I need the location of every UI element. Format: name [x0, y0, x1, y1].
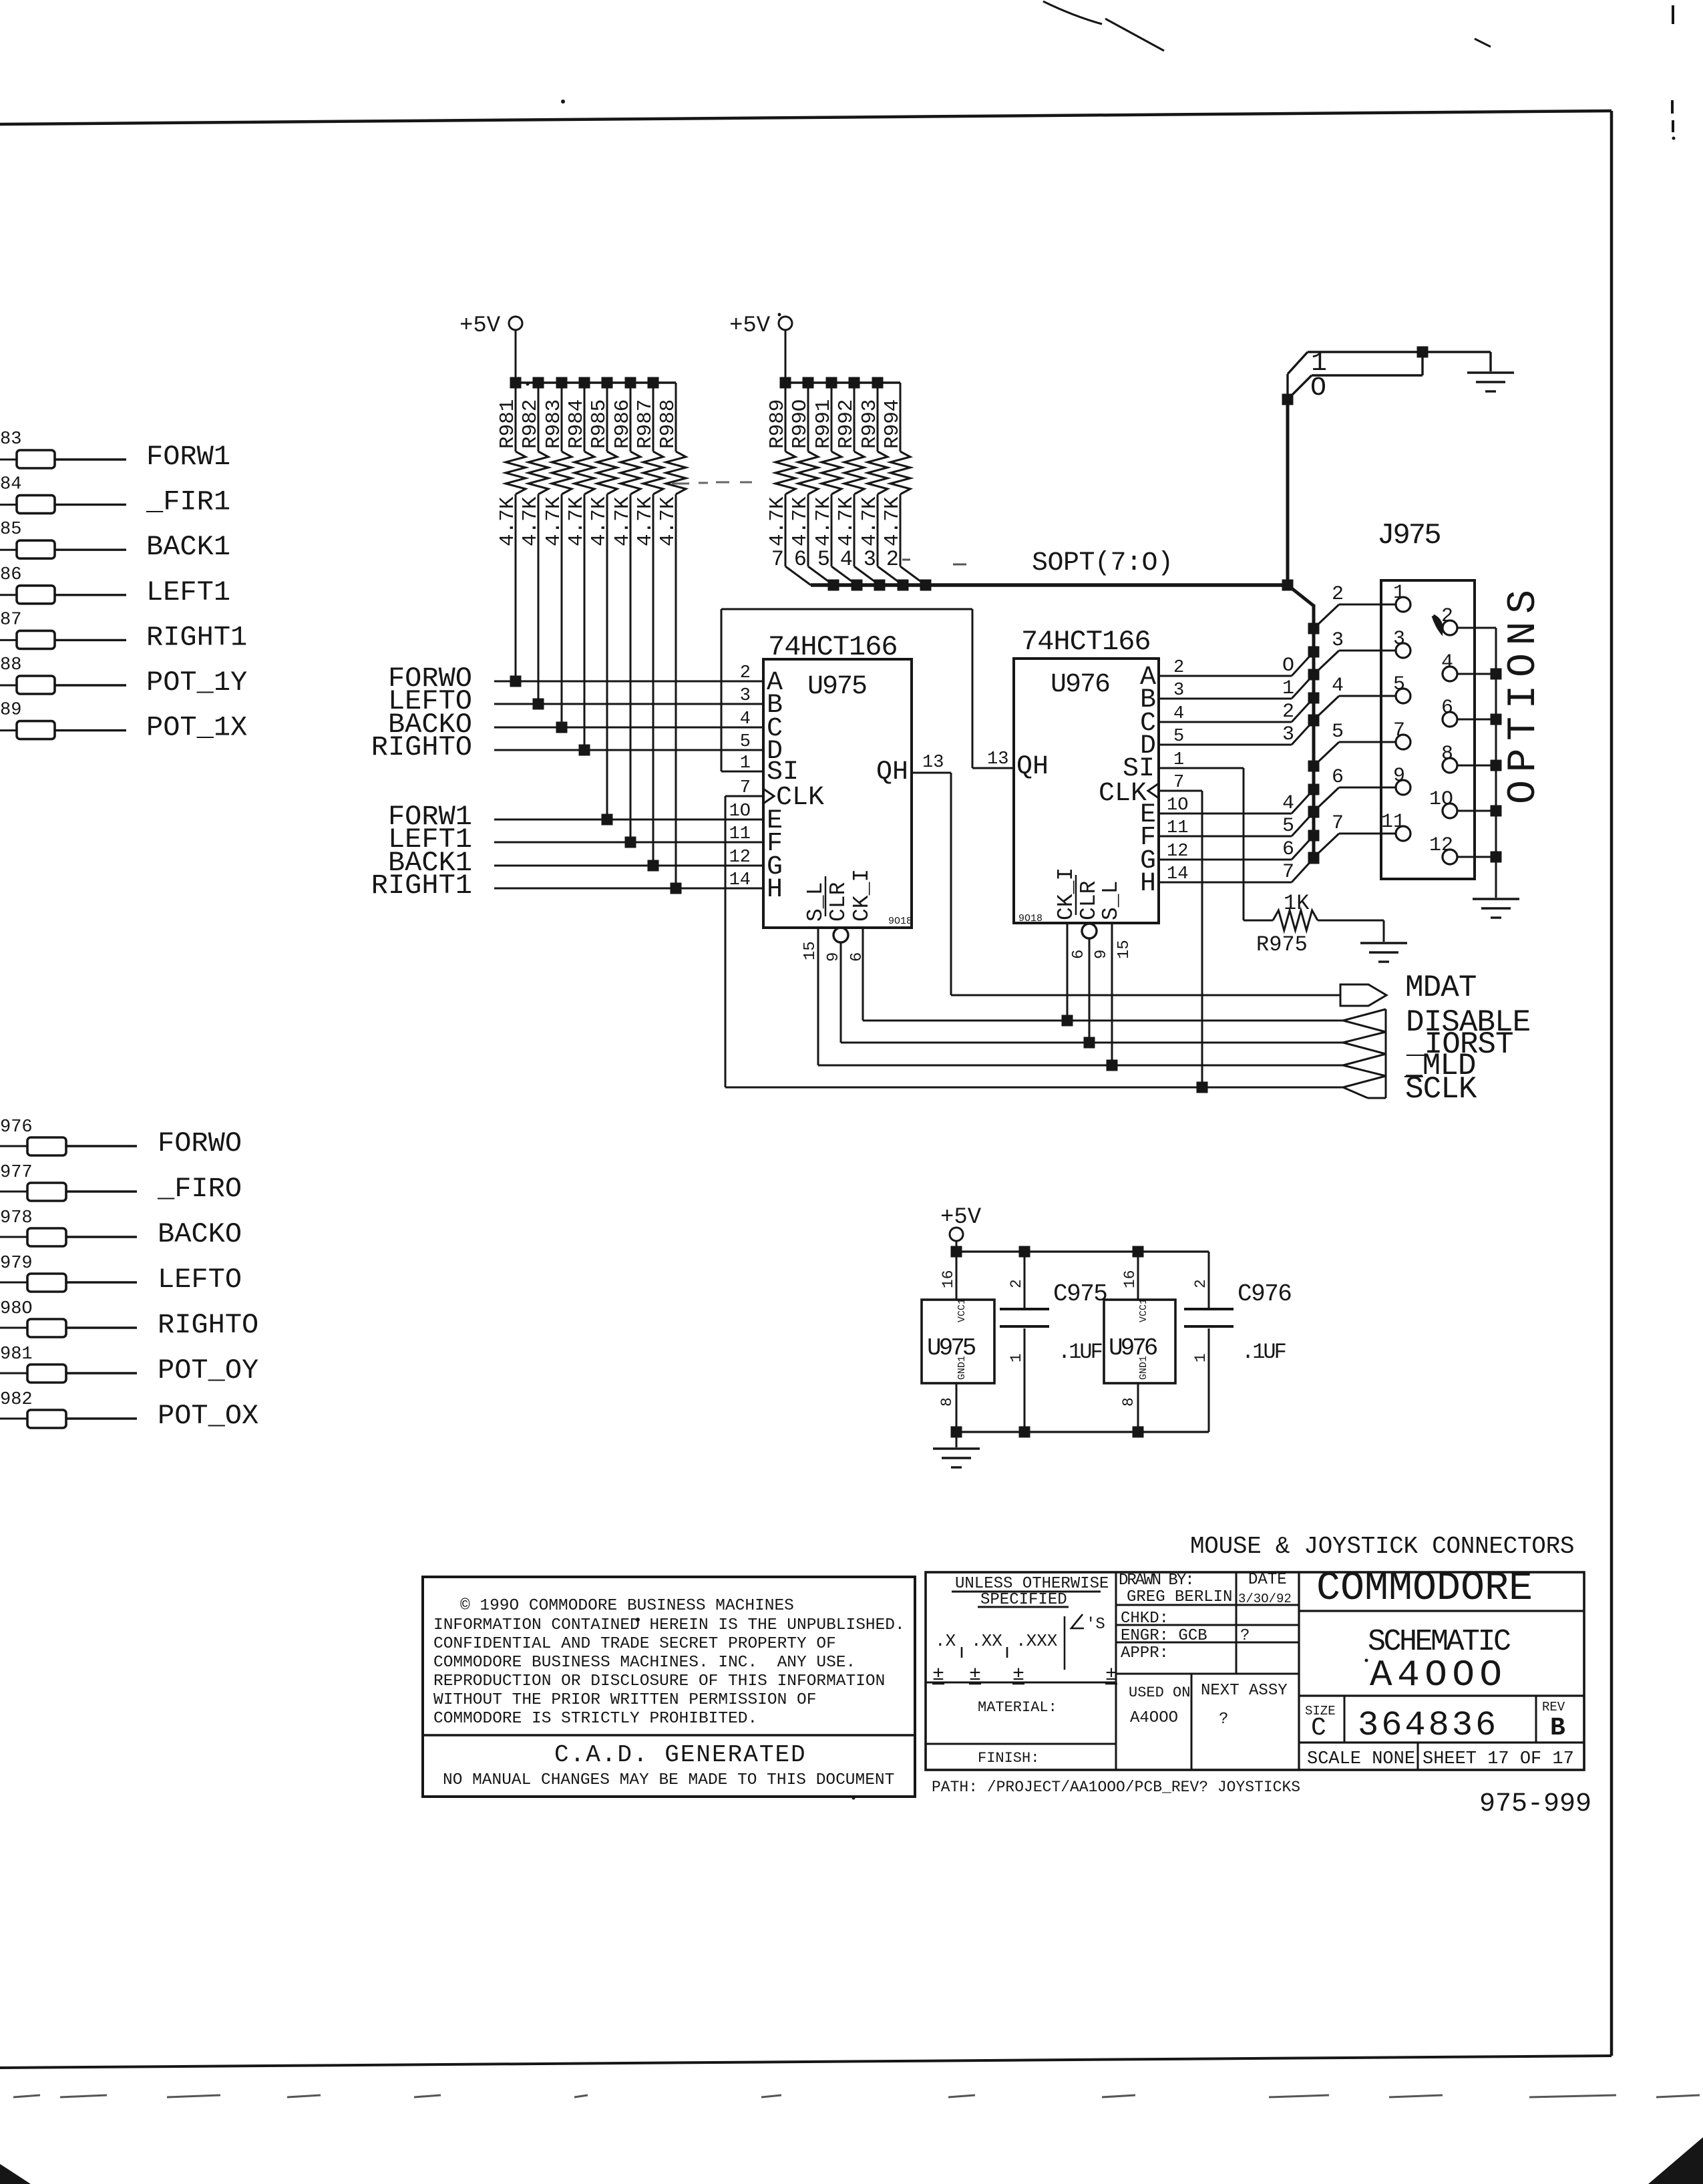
resistor R988 4.7K [666, 451, 686, 494]
svg-text:_FIRO: _FIRO [157, 1173, 242, 1205]
svg-text:CLR: CLR [1077, 881, 1101, 920]
resistor R982 4.7K [538, 383, 540, 451]
svg-text:8: 8 [1441, 743, 1453, 765]
node bus junction [920, 580, 932, 591]
svg-text:© 199O COMMODORE BUSINESS MACH: © 199O COMMODORE BUSINESS MACHINES [460, 1597, 794, 1615]
svg-text:2: 2 [1192, 1279, 1209, 1288]
svg-text:O: O [1282, 655, 1294, 677]
ground (strap) [1467, 371, 1514, 373]
svg-text:86: 86 [0, 565, 21, 585]
svg-text:REV: REV [1542, 1700, 1565, 1714]
node junction [1491, 805, 1502, 817]
flag SCLK (input) [1343, 1076, 1386, 1098]
resistor R986 (LEFT1) [0, 594, 17, 596]
svg-text:MDAT: MDAT [1405, 970, 1476, 1005]
svg-text:13: 13 [987, 749, 1008, 769]
flag _MLD (input) [1343, 1054, 1386, 1076]
node bus junction [898, 580, 909, 591]
svg-text:COMMODORE: COMMODORE [1316, 1566, 1533, 1612]
shift register U976 74HCT166 [1014, 659, 1159, 923]
wire bus entry [785, 566, 811, 585]
pin 11 J975 [1396, 826, 1410, 841]
bus diagonal to vertical [1288, 585, 1314, 606]
svg-text:C975: C975 [1053, 1280, 1107, 1308]
resistor R990 4.7K [807, 383, 809, 451]
svg-text:USED ON: USED ON [1129, 1684, 1190, 1701]
svg-text:7: 7 [1332, 812, 1344, 835]
power box U976 [1104, 1300, 1175, 1383]
svg-text:LEFT1: LEFT1 [146, 576, 230, 608]
svg-text:15: 15 [801, 941, 819, 960]
svg-text:8: 8 [1120, 1397, 1137, 1407]
svg-text:U975: U975 [807, 672, 866, 702]
svg-text:9O18: 9O18 [888, 916, 912, 927]
svg-text:CLK: CLK [776, 783, 824, 813]
svg-text:16: 16 [1121, 1270, 1139, 1288]
svg-text:QH: QH [876, 757, 908, 787]
node bus tap [1308, 761, 1320, 772]
svg-text:976: 976 [0, 1117, 33, 1137]
resistor R988 (POT_1Y) [0, 685, 17, 687]
svg-text:88: 88 [0, 655, 21, 675]
svg-text:H: H [767, 875, 783, 905]
node bus tap [1308, 852, 1320, 864]
node bus tap [1308, 693, 1320, 704]
svg-text:SHEET 17 OF 17: SHEET 17 OF 17 [1423, 1749, 1574, 1769]
resistor R983 4.7K [561, 383, 563, 451]
svg-text:.1UF: .1UF [1058, 1340, 1102, 1364]
wire FORWO to U975 [494, 681, 763, 683]
svg-text:4: 4 [1282, 792, 1294, 815]
wire U976 CLK to SCLK [1159, 790, 1202, 792]
svg-text:1O: 1O [1429, 788, 1453, 811]
flag DISABLE (input) [1343, 1009, 1386, 1032]
svg-text:R989: R989 [766, 399, 789, 449]
resistor R977 (_FIRO) [0, 1191, 27, 1193]
bus SOPT(7:0) horizontal [811, 583, 1288, 587]
scan artifacts [1043, 1, 1102, 24]
svg-text:?: ? [1219, 1710, 1228, 1728]
svg-text:GND1: GND1 [956, 1356, 968, 1380]
svg-text:12: 12 [1429, 834, 1453, 857]
node rail junction [803, 377, 814, 389]
svg-text:5: 5 [1332, 721, 1344, 743]
resistor R993 4.7K [877, 383, 879, 451]
ground (J975) [1473, 898, 1519, 900]
svg-text:NO MANUAL CHANGES MAY BE MADE: NO MANUAL CHANGES MAY BE MADE TO THIS DO… [443, 1771, 894, 1789]
connector J975 [1381, 580, 1475, 879]
node junction [510, 676, 522, 687]
svg-text:1: 1 [1008, 1353, 1025, 1362]
wire strap to ground [1423, 351, 1491, 353]
svg-text:R981: R981 [496, 399, 520, 449]
svg-text:3: 3 [1332, 629, 1344, 652]
svg-text:MATERIAL:: MATERIAL: [978, 1699, 1057, 1716]
node rail junction [510, 377, 522, 389]
pin 7 J975 [1396, 735, 1410, 749]
pin 5 J975 [1396, 689, 1410, 703]
svg-text:977: 977 [0, 1163, 33, 1183]
resistor R975 1K [1273, 910, 1318, 930]
svg-text:74HCT166: 74HCT166 [768, 631, 898, 663]
svg-text:74HCT166: 74HCT166 [1021, 626, 1151, 658]
wire net 1 strap [1308, 351, 1423, 353]
svg-text:U975: U975 [927, 1334, 976, 1362]
node junction [1491, 669, 1502, 680]
svg-text:SCLK: SCLK [1405, 1072, 1477, 1107]
wire +5V rail 2 [785, 381, 900, 383]
svg-text:83: 83 [0, 429, 21, 449]
svg-text:SCALE NONE: SCALE NONE [1307, 1749, 1415, 1769]
svg-text:R985: R985 [588, 399, 611, 449]
flag _IORST (input) [1343, 1032, 1386, 1054]
svg-text:6: 6 [1282, 838, 1294, 861]
svg-text:WITHOUT THE PRIOR WRITTEN PERM: WITHOUT THE PRIOR WRITTEN PERMISSION OF [433, 1691, 816, 1709]
node bus tap [1308, 715, 1320, 727]
wire U976 SI to R975 [1159, 767, 1244, 769]
node rail junction [648, 377, 659, 389]
copyright box [423, 1577, 915, 1797]
node bus junction [828, 580, 839, 591]
power box U975 [922, 1300, 994, 1383]
wire J975 even pins to ground [1495, 628, 1497, 898]
svg-text:2: 2 [1441, 605, 1453, 628]
svg-text:FORWO: FORWO [158, 1127, 242, 1159]
svg-text:DRAWN BY:: DRAWN BY: [1119, 1572, 1193, 1590]
svg-text:6: 6 [1441, 697, 1453, 719]
svg-text:1: 1 [1282, 677, 1294, 700]
resistor R984 (_FIR1) [0, 504, 17, 506]
node junction [1491, 760, 1502, 771]
svg-text:POT_OX: POT_OX [158, 1400, 258, 1432]
node bus tap [1308, 784, 1320, 795]
wire U975 QH to MDAT [912, 772, 951, 774]
svg-text:R994: R994 [881, 399, 904, 449]
pin 8 J975 [1443, 758, 1457, 773]
wire R988 to row [675, 494, 677, 888]
node SOPT corner junction [1282, 580, 1294, 591]
resistor R982 (POT_OX) [0, 1418, 27, 1420]
pin 3 J975 [1396, 643, 1410, 658]
svg-text:+5V: +5V [940, 1205, 982, 1230]
node bus tap [1308, 830, 1320, 842]
resistor R985 (BACK1) [0, 549, 17, 551]
svg-text:975-999: 975-999 [1479, 1789, 1591, 1819]
pin 6 J975 [1443, 712, 1457, 727]
wire U975 SI from U976 QH [721, 771, 763, 773]
svg-text:85: 85 [0, 520, 21, 540]
svg-text:89: 89 [0, 701, 21, 721]
svg-text:S_L: S_L [1099, 881, 1123, 920]
svg-text:6: 6 [1070, 950, 1088, 959]
svg-text:CK_I: CK_I [1054, 868, 1079, 920]
svg-text:16: 16 [940, 1270, 957, 1288]
svg-text:2: 2 [886, 547, 899, 572]
resistor R984 4.7K [584, 383, 586, 451]
resistor R979 (LEFTO) [0, 1282, 27, 1284]
wire R985 to row [606, 494, 608, 820]
resistor R987 4.7K [652, 383, 654, 451]
svg-text:R988: R988 [656, 399, 680, 449]
svg-text:6: 6 [1332, 766, 1344, 789]
wire bus entry [878, 566, 903, 585]
pin 12 J975 [1443, 850, 1457, 864]
svg-text:R993: R993 [858, 399, 882, 449]
svg-text:13: 13 [922, 753, 944, 773]
svg-text:+5V: +5V [729, 313, 771, 339]
node junction [533, 699, 544, 710]
wire _IORST [841, 1042, 1343, 1044]
svg-text:R983: R983 [542, 399, 566, 449]
node junction [602, 814, 613, 826]
node junction [648, 860, 659, 872]
resistor R976 (FORWO) [0, 1145, 27, 1147]
svg-text:GND1: GND1 [1138, 1356, 1149, 1380]
svg-text:RIGHTO: RIGHTO [371, 731, 472, 763]
svg-text:9O18: 9O18 [1018, 913, 1043, 924]
svg-text:3: 3 [1393, 628, 1405, 651]
resistor R989 4.7K [785, 383, 787, 451]
svg-text:MOUSE & JOYSTICK CONNECTORS: MOUSE & JOYSTICK CONNECTORS [1190, 1533, 1574, 1560]
sheet border frame [0, 111, 1612, 124]
node bus tap [1308, 647, 1320, 658]
node bus tap [1308, 623, 1320, 634]
svg-text:LEFTO: LEFTO [158, 1264, 242, 1296]
node rail junction [872, 377, 884, 389]
svg-text:9: 9 [1393, 765, 1405, 787]
svg-text:5: 5 [1282, 815, 1294, 838]
svg-text:DATE: DATE [1248, 1571, 1287, 1589]
svg-text:REPRODUCTION OR DISCLOSURE OF: REPRODUCTION OR DISCLOSURE OF THIS INFOR… [433, 1672, 885, 1690]
svg-text:R982: R982 [519, 399, 542, 449]
svg-text:15: 15 [1115, 940, 1133, 959]
node bus tap [1308, 806, 1320, 817]
wire MDAT [951, 994, 1340, 996]
wire strap down to SOPT [1286, 399, 1290, 585]
svg-text:R99O: R99O [789, 399, 812, 449]
svg-text:APPR:: APPR: [1121, 1644, 1169, 1662]
wire FORW1 to U975 [494, 819, 763, 821]
svg-text:PATH: /PROJECT/AA1OOO/PCB_REV?: PATH: /PROJECT/AA1OOO/PCB_REV? JOYSTICKS [932, 1779, 1300, 1796]
svg-text:1: 1 [1393, 582, 1405, 604]
wire RIGHT1 to U975 [494, 888, 763, 890]
svg-text:9: 9 [1093, 950, 1111, 959]
svg-text:B: B [1550, 1714, 1565, 1743]
node bus tap [1308, 807, 1320, 818]
svg-text:RIGHTO: RIGHTO [158, 1309, 258, 1341]
svg-text:UNLESS OTHERWISE: UNLESS OTHERWISE [955, 1575, 1109, 1593]
svg-text:2: 2 [1282, 701, 1294, 723]
node junction [579, 745, 590, 756]
resistor R980 (RIGHTO) [0, 1327, 27, 1329]
svg-text:7: 7 [1282, 861, 1294, 884]
resistor R983 (FORW1) [0, 459, 17, 461]
svg-text:OPTIONS: OPTIONS [1501, 582, 1547, 804]
node junction [1491, 852, 1502, 863]
svg-text:BACKO: BACKO [158, 1218, 242, 1250]
svg-text:R975: R975 [1256, 932, 1308, 957]
pin 10 J975 [1443, 803, 1457, 818]
pin 1 J975 [1396, 597, 1410, 612]
wire BACKO to U975 [494, 727, 763, 729]
node rail junction [625, 377, 636, 389]
svg-text:SOPT(7:O): SOPT(7:O) [1032, 548, 1173, 578]
wire +5V bypass rail [956, 1250, 1209, 1252]
wire R987 to row [652, 494, 654, 866]
wire SCLK [725, 1087, 1343, 1089]
svg-text:4: 4 [840, 547, 853, 572]
svg-text:VCC1: VCC1 [956, 1298, 968, 1322]
node junction [1491, 714, 1502, 725]
svg-text:8: 8 [938, 1397, 956, 1407]
svg-text:COMMODORE BUSINESS MACHINES. I: COMMODORE BUSINESS MACHINES. INC. ANY US… [433, 1654, 856, 1672]
wire U975 CLK to SCLK [725, 795, 763, 797]
svg-text:RIGHT1: RIGHT1 [371, 870, 472, 902]
wire bus entry [808, 566, 833, 585]
resistor R991 4.7K [831, 383, 833, 451]
wire RIGHTO to U975 [494, 749, 763, 751]
wire _MLD [818, 1065, 1343, 1067]
node strap junction [1417, 347, 1429, 358]
wire LEFT1 to U975 [494, 842, 763, 844]
svg-text:2: 2 [1332, 583, 1344, 606]
svg-text:INFORMATION CONTAINED HEREIN I: INFORMATION CONTAINED HEREIN IS THE UNPU… [433, 1616, 905, 1634]
node rail junction [556, 377, 568, 389]
svg-text:5: 5 [817, 547, 830, 572]
wire R983 to row [561, 494, 563, 727]
node rail junction [602, 377, 613, 389]
wire R982 to row [538, 494, 540, 704]
svg-text:POT_1X: POT_1X [146, 712, 247, 744]
svg-text:R992: R992 [835, 399, 858, 449]
pin 2 J975 [1443, 620, 1457, 635]
svg-text:NEXT ASSY: NEXT ASSY [1201, 1682, 1288, 1700]
resistor R981 4.7K [515, 383, 517, 451]
svg-text:4: 4 [1332, 675, 1344, 697]
resistor R978 (BACKO) [0, 1236, 27, 1238]
svg-text:6: 6 [794, 547, 807, 572]
svg-text:CLK: CLK [1099, 779, 1147, 809]
svg-text:5: 5 [1393, 673, 1405, 696]
svg-text:7: 7 [1393, 719, 1405, 742]
node bus tap [1308, 669, 1320, 681]
svg-text:VCC1: VCC1 [1138, 1298, 1149, 1322]
wire net 0 strap [1421, 352, 1423, 375]
svg-text:C.A.D. GENERATED: C.A.D. GENERATED [554, 1741, 807, 1769]
svg-text:C: C [1311, 1714, 1326, 1743]
svg-text:BACK1: BACK1 [146, 531, 230, 563]
svg-text:POT_1Y: POT_1Y [146, 667, 247, 699]
resistor R992 4.7K [854, 383, 856, 451]
wire R984 to row [584, 494, 586, 750]
wire R981 to row [515, 494, 517, 681]
resistor R985 4.7K [606, 383, 608, 451]
svg-text:3: 3 [864, 547, 876, 572]
wire BACK1 to U975 [494, 865, 763, 867]
svg-text:+5V: +5V [459, 313, 501, 339]
wire bus entry [900, 566, 926, 585]
node bus tap [1308, 669, 1320, 681]
svg-text:CK_I: CK_I [849, 869, 874, 922]
flag MDAT (output) [1340, 984, 1386, 1006]
svg-text:1K: 1K [1284, 891, 1310, 916]
wire R986 to row [630, 494, 632, 842]
svg-text:11: 11 [1381, 811, 1405, 834]
node bus junction [851, 580, 863, 591]
svg-text:COMMODORE IS STRICTLY PROHIBIT: COMMODORE IS STRICTLY PROHIBITED. [433, 1710, 757, 1728]
svg-text:O: O [1310, 373, 1326, 403]
svg-text:R986: R986 [611, 399, 634, 449]
svg-text:98O: 98O [0, 1299, 33, 1319]
node rail junction [579, 377, 590, 389]
svg-text:POT_OY: POT_OY [158, 1354, 258, 1387]
wire +5V rail 1 [516, 381, 676, 383]
wire bus entry [831, 566, 857, 585]
svg-text:.1UF: .1UF [1242, 1340, 1286, 1364]
node bus tap [1308, 853, 1320, 864]
svg-text:982: 982 [0, 1390, 33, 1410]
svg-text:R984: R984 [565, 399, 588, 449]
capacitor C975 .1UF [1024, 1252, 1026, 1308]
node bus tap [1308, 715, 1320, 726]
wire bus entry [854, 566, 880, 585]
angle tolerance symbol [1071, 1614, 1084, 1628]
title block [926, 1572, 1584, 1770]
svg-text:.X: .X [935, 1631, 956, 1651]
svg-text:.XXX: .XXX [1016, 1631, 1058, 1651]
svg-text:.XX: .XX [971, 1631, 1002, 1651]
svg-text:R991: R991 [812, 399, 835, 449]
svg-text:87: 87 [0, 610, 21, 630]
node junction [671, 883, 682, 894]
ground (bypass) [933, 1447, 980, 1449]
svg-text:981: 981 [0, 1344, 33, 1364]
svg-text:RIGHT1: RIGHT1 [146, 621, 247, 653]
node rail junction [533, 377, 544, 389]
op... shift register U975 74HCT166 [763, 659, 912, 928]
svg-text:GREG BERLIN: GREG BERLIN [1127, 1588, 1232, 1606]
node rail junction [849, 377, 860, 389]
svg-text:364836: 364836 [1358, 1706, 1499, 1745]
svg-text:U976: U976 [1109, 1334, 1157, 1362]
ground (R975) [1360, 942, 1407, 944]
wire bypass ground rail [956, 1431, 1209, 1433]
bus SOPT vertical [1312, 604, 1316, 862]
svg-text:H: H [1140, 869, 1156, 899]
svg-text:S_L: S_L [803, 882, 828, 922]
svg-text:FINISH:: FINISH: [978, 1750, 1039, 1767]
node rail junction [780, 377, 791, 389]
svg-text:J975: J975 [1377, 519, 1440, 552]
svg-text:978: 978 [0, 1208, 33, 1228]
svg-text:A4OOO: A4OOO [1130, 1709, 1178, 1727]
node rail junction [826, 377, 837, 389]
svg-text:FORW1: FORW1 [146, 441, 230, 473]
svg-text:CLR: CLR [826, 882, 851, 922]
svg-text:QH: QH [1016, 752, 1049, 782]
svg-text:1: 1 [1192, 1353, 1209, 1362]
svg-text:84: 84 [0, 475, 21, 495]
svg-text:'S: 'S [1086, 1616, 1105, 1634]
svg-text:7: 7 [771, 547, 784, 572]
resistor R987 (RIGHT1) [0, 639, 17, 641]
resistor R986 4.7K [630, 383, 632, 451]
svg-text:U976: U976 [1051, 670, 1109, 700]
resistor R994 4.7K [890, 451, 910, 494]
svg-text:979: 979 [0, 1254, 33, 1274]
node junction [556, 722, 568, 733]
pin 4 J975 [1443, 667, 1457, 681]
